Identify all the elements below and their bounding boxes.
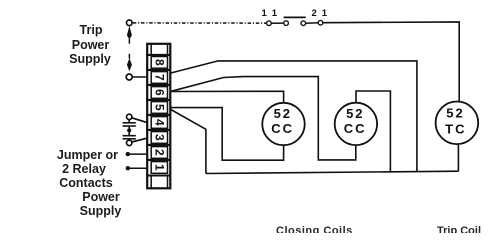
terminal 6 inner box — [151, 87, 167, 99]
contact K2 plates — [123, 135, 136, 137]
wire W4: terminal 5 to CC1 bottom — [171, 108, 284, 161]
wire: CC2 top to rail — [356, 91, 390, 172]
relay contact pair (jumper) — [123, 114, 147, 145]
svg-text:3: 3 — [152, 134, 166, 141]
wire to terminal 7 — [132, 76, 146, 78]
coil 52CC #1 — [262, 103, 304, 145]
svg-text:52: 52 — [274, 106, 292, 121]
svg-text:52: 52 — [346, 106, 364, 121]
wire W5: terminal 5 to bottom rail — [171, 110, 206, 174]
strip dividers — [146, 55, 170, 176]
linkage bar between 11 and 21 — [284, 16, 306, 18]
svg-text:CC: CC — [344, 121, 367, 136]
wire W3: terminal 6 to CC1 top — [171, 91, 284, 103]
terminal 7 inner box — [151, 72, 167, 84]
wire: TC bottom to rail — [457, 144, 459, 171]
label: Jumper or 2 Relay Contacts — [0, 148, 175, 162]
coil labels — [271, 105, 466, 136]
label: Power Supply (bottom) — [0, 190, 202, 204]
contact 21 — [301, 20, 323, 25]
coil 52CC #2 — [335, 103, 377, 145]
arrow down (trip supply) — [127, 54, 132, 71]
contact labels — [262, 8, 333, 19]
terminal 3 inner box — [151, 132, 167, 144]
svg-text:6: 6 — [152, 89, 166, 96]
strip side rails (empty end cells) — [151, 44, 167, 189]
svg-text:52: 52 — [446, 105, 464, 120]
contact K1 plates — [123, 122, 136, 124]
svg-text:TC: TC — [445, 121, 466, 136]
terminal 1 inner box — [151, 162, 167, 174]
wire to terminal 3 — [132, 138, 147, 142]
coil 52TC — [436, 102, 479, 145]
svg-text:5: 5 — [152, 104, 166, 111]
mid node — [127, 128, 131, 132]
power supply stub to terminal 2 — [126, 152, 147, 156]
terminal 8 inner box — [151, 57, 167, 69]
label: Trip Power Supply — [0, 23, 182, 37]
svg-text:11: 11 — [262, 8, 283, 19]
label: Trip Coil — [437, 225, 481, 237]
svg-text:CC: CC — [271, 121, 294, 136]
svg-text:21: 21 — [312, 8, 333, 19]
label: Closing Coils — [276, 225, 353, 237]
wire: trip supply dash-dot bus — [133, 22, 266, 24]
terminal digits (rotated) — [152, 59, 166, 171]
wire to terminal 4 — [132, 118, 147, 123]
wire W1: terminal 8 to bottom rail — [171, 61, 417, 172]
wire: 21 to TC top corner — [323, 22, 459, 102]
terminal 4 inner box — [151, 117, 167, 129]
wire: bottom rail — [206, 171, 459, 173]
svg-text:7: 7 — [152, 74, 166, 81]
svg-text:4: 4 — [152, 119, 166, 126]
terminal 2 inner box — [151, 147, 167, 159]
wire W2: terminal 7 to CC2 bottom — [171, 77, 356, 160]
power supply stub to terminal 1 — [126, 166, 147, 170]
node bottom — [127, 140, 132, 145]
node: trip supply top terminal — [127, 20, 133, 26]
contact 11 — [267, 21, 289, 26]
node: trip supply bottom terminal — [126, 74, 132, 80]
node top — [127, 114, 132, 119]
terminal strip TB outer — [147, 44, 170, 189]
terminal 5 inner box — [151, 102, 167, 114]
arrow up (trip supply) — [127, 26, 132, 44]
